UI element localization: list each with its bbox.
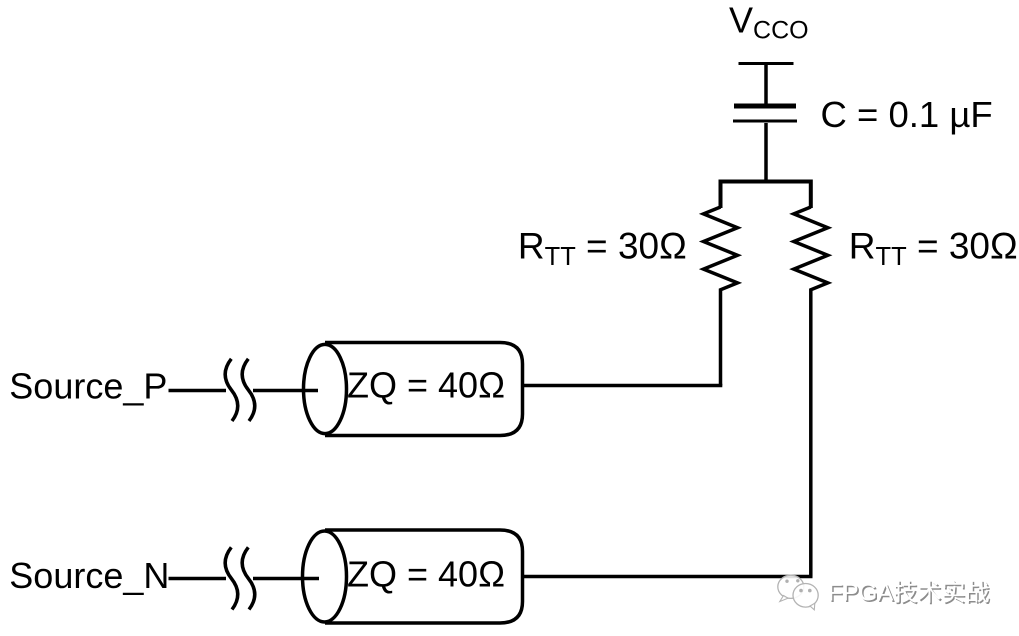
- svg-text:FPGA技术实战: FPGA技术实战: [828, 579, 989, 606]
- svg-text:RTT = 30Ω: RTT = 30Ω: [849, 226, 1018, 272]
- svg-text:ZQ = 40Ω: ZQ = 40Ω: [347, 554, 505, 595]
- svg-text:RTT = 30Ω: RTT = 30Ω: [518, 226, 687, 272]
- svg-text:C = 0.1 µF: C = 0.1 µF: [821, 94, 993, 135]
- svg-text:Source_P: Source_P: [9, 366, 167, 407]
- svg-text:Source_N: Source_N: [9, 555, 169, 596]
- svg-text:ZQ = 40Ω: ZQ = 40Ω: [347, 365, 505, 406]
